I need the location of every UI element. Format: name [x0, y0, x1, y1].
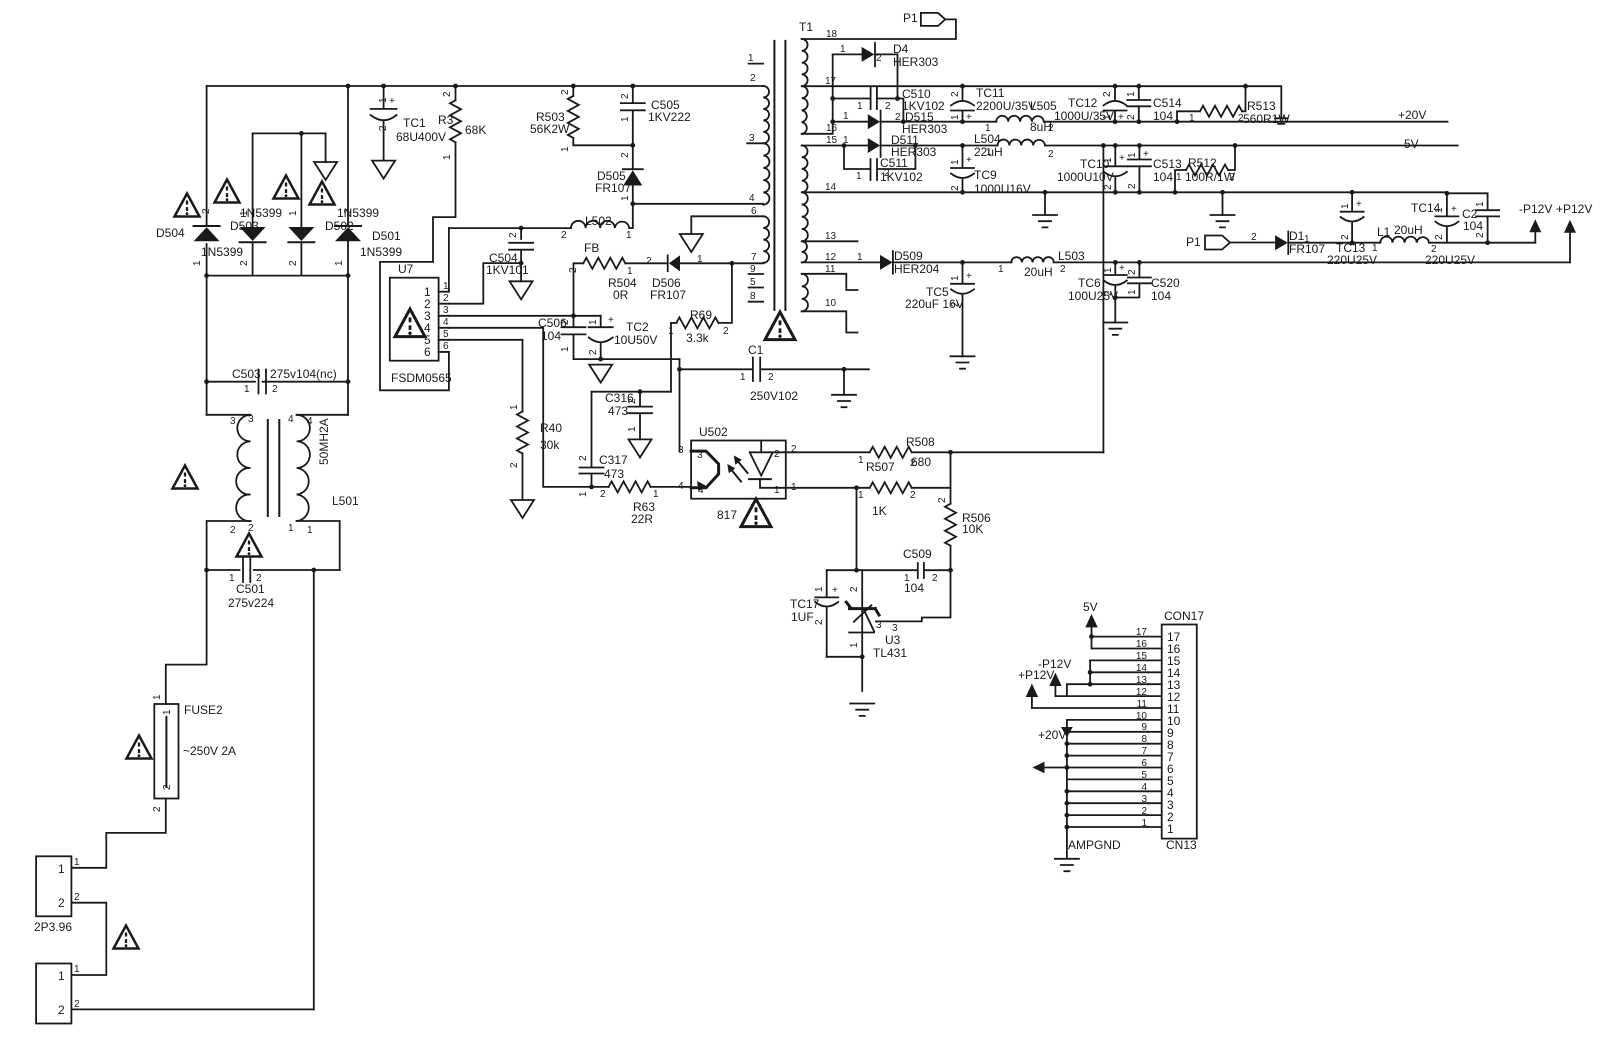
svg-text:1: 1 — [1127, 289, 1138, 295]
capacitor C520 — [1115, 262, 1151, 297]
capacitor C510 — [833, 87, 898, 109]
svg-text:2: 2 — [1048, 123, 1054, 134]
capacitor C317 — [580, 392, 604, 487]
capacitor C511 — [844, 146, 915, 181]
svg-text:HER204: HER204 — [894, 262, 940, 276]
diode D506 — [667, 255, 669, 271]
svg-text:1: 1 — [843, 135, 849, 146]
svg-text:1: 1 — [1372, 243, 1378, 254]
svg-text:5: 5 — [443, 329, 449, 340]
wire L1 to -P12V — [1429, 242, 1535, 244]
svg-text:1: 1 — [162, 709, 173, 715]
op-amp U502 optocoupler 817 — [691, 441, 786, 499]
wire pin4 — [1067, 790, 1148, 792]
wire C501 right down to connector — [313, 570, 315, 1009]
svg-text:1N5399: 1N5399 — [201, 245, 243, 259]
svg-text:+: + — [1451, 204, 1457, 215]
svg-text:12: 12 — [825, 252, 837, 263]
svg-text:1: 1 — [740, 372, 746, 383]
wire pin1 node down — [856, 488, 858, 570]
svg-text:TC17: TC17 — [790, 597, 820, 611]
diode D504 — [194, 225, 220, 227]
svg-text:473: 473 — [604, 467, 624, 481]
transistor U3 TL431 — [861, 570, 863, 691]
svg-text:1: 1 — [74, 857, 80, 868]
capacitor TC6 — [1104, 262, 1127, 275]
wire pin17 — [1092, 636, 1148, 638]
ground open triangle bridge — [314, 162, 337, 180]
svg-text:2: 2 — [1048, 149, 1054, 160]
wire pin12 — [1055, 695, 1148, 697]
svg-text:2: 2 — [932, 573, 938, 584]
net +P12V — [1564, 220, 1576, 233]
svg-text:1: 1 — [998, 264, 1004, 275]
svg-text:2: 2 — [791, 444, 797, 455]
svg-text:TL431: TL431 — [873, 646, 907, 660]
resistor R512 — [1175, 170, 1186, 192]
capacitor TC10 — [1104, 146, 1127, 167]
svg-text:2: 2 — [774, 449, 780, 460]
wire left rail upper — [206, 86, 208, 225]
svg-text:9: 9 — [750, 264, 756, 275]
svg-text:+20V: +20V — [1398, 108, 1426, 122]
wire L502 row — [449, 227, 571, 229]
svg-text:2: 2 — [1127, 183, 1138, 189]
wire fuse to connector CN1 pin1 — [71, 799, 165, 868]
connector CON17/CN13 body — [1162, 625, 1197, 839]
capacitor C504 — [509, 228, 533, 281]
svg-text:1: 1 — [1176, 172, 1182, 183]
wire pin15 — [1090, 659, 1148, 661]
svg-text:2: 2 — [620, 152, 631, 158]
svg-text:D501: D501 — [372, 229, 401, 243]
svg-text:4: 4 — [307, 416, 313, 427]
inductor L504 — [998, 140, 1046, 146]
svg-text:1KV101: 1KV101 — [486, 263, 529, 277]
svg-text:2: 2 — [58, 896, 65, 910]
svg-text:C520: C520 — [1151, 276, 1180, 290]
diode D4 — [833, 53, 862, 55]
svg-text:2: 2 — [620, 93, 631, 99]
svg-text:2: 2 — [885, 101, 891, 112]
svg-text:D504: D504 — [156, 226, 185, 240]
U502 LED — [750, 441, 786, 476]
diode D505 — [623, 145, 643, 169]
core L501 — [268, 420, 280, 516]
svg-text:FSDM0565: FSDM0565 — [391, 371, 452, 385]
wire U502 pin1 row / resistor R507 — [786, 487, 870, 489]
wire U3 ref to R506 node — [876, 570, 951, 621]
svg-text:2: 2 — [849, 586, 860, 592]
svg-text:220U25V: 220U25V — [1327, 253, 1377, 267]
wire U7 pin1 up to L502 row — [448, 228, 450, 292]
svg-text:68K: 68K — [465, 123, 486, 137]
T1 pins 9 5 8 stubs — [749, 274, 763, 302]
wire pin5 — [1067, 768, 1148, 858]
svg-text:1: 1 — [1103, 267, 1114, 273]
wire pin7 — [1067, 755, 1148, 757]
svg-text:1: 1 — [578, 491, 589, 497]
warning triangle connectors — [114, 926, 139, 949]
svg-text:3: 3 — [443, 305, 449, 316]
diode D515 — [833, 121, 868, 123]
svg-text:C501: C501 — [236, 582, 265, 596]
svg-text:+: + — [1119, 153, 1125, 164]
svg-text:2: 2 — [588, 349, 599, 355]
T1 secondary winding 15-14-13-12 — [802, 146, 808, 263]
svg-text:R3: R3 — [438, 113, 454, 127]
svg-text:10U50V: 10U50V — [614, 333, 657, 347]
svg-text:2: 2 — [1126, 114, 1137, 120]
wire node to T1 pin7 — [732, 262, 763, 264]
svg-text:1: 1 — [857, 101, 863, 112]
ground open triangle C316 — [629, 439, 652, 457]
svg-text:R40: R40 — [540, 421, 562, 435]
svg-text:C514: C514 — [1153, 96, 1182, 110]
svg-text:1: 1 — [627, 426, 638, 432]
svg-text:104: 104 — [1153, 170, 1173, 184]
core T1 — [774, 41, 785, 310]
capacitor C1 — [680, 358, 869, 382]
svg-text:6: 6 — [751, 206, 757, 217]
svg-text:5: 5 — [750, 277, 756, 288]
svg-text:1: 1 — [620, 116, 631, 122]
svg-text:3: 3 — [678, 445, 684, 456]
wire C506/TC2 ground row — [574, 358, 680, 360]
capacitor C505 — [621, 86, 645, 145]
warning triangle bridge 4 — [310, 182, 335, 205]
svg-text:1: 1 — [58, 969, 65, 983]
svg-text:P1: P1 — [1186, 235, 1201, 249]
svg-text:~250V 2A: ~250V 2A — [183, 744, 236, 758]
svg-text:C509: C509 — [903, 547, 932, 561]
svg-text:R69: R69 — [690, 308, 712, 322]
svg-text:2: 2 — [1060, 264, 1066, 275]
svg-text:20uH: 20uH — [1394, 223, 1423, 237]
svg-text:FUSE2: FUSE2 — [184, 703, 223, 717]
svg-text:1: 1 — [748, 53, 754, 64]
pin stubs U7 — [439, 292, 449, 352]
svg-text:2: 2 — [239, 260, 250, 266]
capacitor TC17 — [815, 570, 838, 597]
capacitor C503 — [207, 370, 348, 394]
wire U7 pin5 to R40 — [449, 340, 523, 412]
svg-text:1: 1 — [950, 114, 961, 120]
svg-text:2: 2 — [768, 372, 774, 383]
svg-text:CN13: CN13 — [1166, 838, 1197, 852]
svg-text:22R: 22R — [631, 512, 653, 526]
resistor R504 — [574, 263, 584, 316]
svg-text:2: 2 — [162, 784, 173, 790]
svg-text:+: + — [1356, 199, 1362, 210]
wire stub to input arrow — [325, 133, 327, 162]
wire feedback vertical to 5V rail — [1102, 146, 1104, 453]
svg-text:TC2: TC2 — [626, 320, 649, 334]
svg-text:L503: L503 — [1058, 249, 1085, 263]
svg-text:220U25V: 220U25V — [1425, 253, 1475, 267]
svg-text:2: 2 — [814, 619, 825, 625]
svg-text:2: 2 — [509, 462, 520, 468]
svg-text:D1: D1 — [1289, 229, 1305, 243]
svg-text:1: 1 — [626, 230, 632, 241]
wire down to U502 pin3 — [679, 359, 681, 451]
wire pin14 — [1090, 660, 1148, 684]
U502 phototransistor — [691, 451, 719, 488]
svg-text:473: 473 — [608, 404, 628, 418]
T1 primary winding 2-3-4 — [763, 86, 769, 205]
wire top bus — [207, 85, 764, 87]
svg-text:1: 1 — [152, 694, 163, 700]
svg-text:56K2W: 56K2W — [530, 122, 570, 136]
capacitor C2 — [1447, 193, 1499, 242]
svg-text:2: 2 — [272, 384, 278, 395]
fuse FUSE2 — [154, 704, 178, 799]
wire T1 pin18 to P1 — [802, 19, 956, 39]
svg-text:2: 2 — [74, 999, 80, 1010]
svg-text:2200U/35V: 2200U/35V — [976, 99, 1036, 113]
svg-text:3: 3 — [230, 416, 236, 427]
svg-text:2: 2 — [910, 490, 916, 501]
capacitor C316 — [628, 392, 652, 440]
svg-text:1: 1 — [560, 146, 571, 152]
svg-text:2: 2 — [1340, 234, 1351, 240]
svg-text:CON17: CON17 — [1164, 609, 1204, 623]
wire T1 pin10 stub — [802, 311, 858, 332]
svg-text:2: 2 — [378, 125, 389, 131]
wire 5V row to TC9/L504 — [915, 145, 997, 147]
svg-text:275v224: 275v224 — [228, 596, 274, 610]
svg-text:2: 2 — [201, 208, 212, 214]
capacitor TC14 — [1435, 192, 1458, 216]
svg-text:100R/1W: 100R/1W — [1185, 170, 1236, 184]
warning triangle above C501 — [237, 534, 262, 557]
svg-text:13: 13 — [825, 231, 837, 242]
svg-text:1: 1 — [588, 319, 599, 325]
wire R3 to U7 outer — [433, 142, 456, 262]
svg-text:2: 2 — [578, 455, 589, 461]
svg-text:+: + — [608, 315, 614, 326]
svg-text:10K: 10K — [962, 522, 983, 536]
wire +20V feed verticals — [1066, 720, 1068, 768]
IC U7 FSDM0565 — [390, 278, 439, 361]
svg-text:1: 1 — [307, 525, 313, 536]
svg-text:3: 3 — [248, 414, 254, 425]
svg-text:L1: L1 — [1377, 225, 1391, 239]
resistor R503 — [572, 86, 574, 96]
svg-text:1: 1 — [653, 489, 659, 500]
svg-text:1: 1 — [1126, 91, 1137, 97]
svg-text:4: 4 — [443, 317, 449, 328]
wire R69 pin1 down — [670, 323, 672, 392]
svg-text:15: 15 — [826, 135, 838, 146]
wire pin9 — [1067, 731, 1148, 733]
svg-text:68U400V: 68U400V — [396, 130, 446, 144]
svg-text:TC9: TC9 — [974, 168, 997, 182]
wire L503 to +P12V — [1054, 261, 1570, 263]
svg-text:+: + — [1119, 263, 1125, 274]
ground open triangle T1 pin6 — [691, 216, 763, 234]
svg-text:2: 2 — [723, 326, 729, 337]
wire D505 node to T1 pin4 — [633, 203, 764, 205]
wire rails to C503 — [207, 276, 348, 415]
svg-text:2: 2 — [508, 232, 519, 238]
svg-text:1: 1 — [1189, 113, 1195, 124]
svg-text:-P12V: -P12V — [1519, 202, 1552, 216]
svg-text:30k: 30k — [540, 438, 560, 452]
wire C1 to earth — [843, 369, 845, 395]
svg-text:560R1W: 560R1W — [1243, 112, 1290, 126]
diode D503 — [252, 133, 254, 226]
svg-text:+: + — [1118, 112, 1124, 123]
inductor L1 — [1352, 242, 1380, 244]
svg-text:1: 1 — [697, 254, 703, 265]
chassis mark after R513 — [1275, 118, 1288, 124]
svg-text:P1: P1 — [903, 11, 918, 25]
capacitor C513 — [1128, 146, 1151, 193]
svg-text:AMPGND: AMPGND — [1068, 838, 1121, 852]
svg-text:2: 2 — [1434, 234, 1445, 240]
svg-text:104: 104 — [1153, 109, 1173, 123]
svg-text:1: 1 — [192, 260, 203, 266]
net -P12V — [1529, 219, 1541, 232]
capacitor C501 — [207, 558, 340, 582]
wire TC2 node top (to pin3 row) — [574, 315, 601, 317]
svg-text:2: 2 — [750, 73, 756, 84]
svg-text:1K: 1K — [872, 504, 887, 518]
svg-text:R512: R512 — [1188, 156, 1217, 170]
svg-text:FR107: FR107 — [650, 288, 686, 302]
node C1 gnd branch — [842, 367, 847, 372]
warning triangle bridge 1 — [175, 194, 200, 217]
resistor R69 — [676, 317, 718, 328]
svg-text:1000U16V: 1000U16V — [974, 182, 1031, 196]
svg-text:R507: R507 — [866, 460, 895, 474]
diode D511 — [868, 138, 880, 153]
svg-text:TC12: TC12 — [1068, 96, 1098, 110]
svg-text:TC14: TC14 — [1411, 201, 1441, 215]
earth C1 — [832, 395, 856, 407]
svg-text:6: 6 — [443, 341, 449, 352]
capacitor TC11 — [962, 86, 964, 99]
svg-text:1: 1 — [950, 275, 961, 281]
ground open triangle C504 — [510, 281, 533, 299]
svg-text:250V102: 250V102 — [750, 389, 798, 403]
svg-text:275v104(nc): 275v104(nc) — [270, 367, 337, 381]
earth AMPGND — [1055, 859, 1079, 871]
inductor L502 — [571, 221, 629, 228]
svg-text:4: 4 — [698, 485, 704, 496]
wire R69 bottom row to C317 — [592, 391, 672, 393]
svg-text:D503: D503 — [230, 219, 259, 233]
svg-text:1: 1 — [239, 210, 250, 216]
wire pin6 with left arrow — [1045, 767, 1148, 769]
svg-text:1: 1 — [442, 154, 453, 160]
svg-text:8: 8 — [750, 291, 756, 302]
svg-text:0R: 0R — [613, 288, 629, 302]
svg-text:2P3.96: 2P3.96 — [34, 920, 72, 934]
warning triangle bridge 3 — [274, 176, 299, 199]
wire CN2 pin2 return — [71, 1008, 313, 1010]
wire CN1 pin2 to CN2 pin1 — [71, 903, 106, 975]
svg-text:L504: L504 — [974, 132, 1001, 146]
svg-text:FB: FB — [584, 241, 599, 255]
svg-text:R508: R508 — [906, 435, 935, 449]
svg-text:2: 2 — [343, 208, 354, 214]
svg-text:TC6: TC6 — [1078, 276, 1101, 290]
capacitor TC1 — [371, 86, 397, 109]
svg-text:50MH2A: 50MH2A — [317, 418, 331, 465]
svg-text:2: 2 — [568, 267, 579, 273]
svg-text:1: 1 — [950, 159, 961, 165]
capacitor TC2 — [589, 316, 613, 327]
svg-text:2: 2 — [937, 497, 948, 503]
T1 secondary winding 18-17-16 — [802, 39, 808, 134]
svg-text:1: 1 — [244, 384, 250, 395]
capacitor C514 — [1127, 86, 1150, 122]
svg-text:1: 1 — [849, 642, 860, 648]
svg-text:100U25V: 100U25V — [1068, 289, 1118, 303]
wire T1 pin12 row — [802, 261, 880, 263]
inductor L501 left winding — [236, 415, 250, 521]
svg-text:1: 1 — [378, 97, 389, 103]
wire T1 pin17 bus — [802, 86, 1282, 117]
svg-text:3: 3 — [697, 450, 703, 461]
svg-text:10: 10 — [825, 298, 837, 309]
svg-text:C511: C511 — [880, 156, 908, 170]
svg-text:C513: C513 — [1153, 157, 1182, 171]
ground open triangle TC2 — [589, 365, 612, 383]
svg-text:U3: U3 — [885, 633, 901, 647]
inductor L501 right winding — [297, 415, 310, 521]
node mid bus junction — [299, 131, 304, 136]
connector P1 right — [1205, 236, 1230, 250]
svg-text:2: 2 — [646, 256, 652, 267]
warning triangle bridge 2 — [215, 180, 240, 203]
resistor R3 — [455, 86, 457, 100]
connector 2P3.96 lower — [36, 964, 71, 1024]
capacitor TC5 — [951, 262, 974, 283]
U502 light arrows — [739, 462, 748, 473]
svg-text:+: + — [1143, 149, 1149, 160]
U7 module outline — [380, 262, 449, 390]
wire pin16 — [1092, 637, 1148, 649]
svg-text:2: 2 — [561, 230, 567, 241]
resistor R63 — [592, 486, 609, 488]
diode D509 — [880, 255, 893, 270]
svg-text:TC10: TC10 — [1080, 157, 1110, 171]
T1 primary winding 6-7 — [763, 216, 769, 262]
warning triangle fuse — [127, 736, 152, 759]
svg-text:+P12V: +P12V — [1556, 202, 1592, 216]
svg-text:C503: C503 — [232, 367, 261, 381]
T1 pin3 stub — [747, 142, 763, 144]
svg-text:L501: L501 — [332, 494, 359, 508]
svg-text:1: 1 — [288, 523, 294, 534]
wire T1 pin11 stub — [802, 274, 858, 290]
svg-text:14: 14 — [825, 182, 837, 193]
capacitor C509 — [827, 563, 951, 578]
diode D501 — [347, 86, 349, 226]
capacitor C506 — [562, 316, 586, 359]
wire U7 pin4 to R63 row — [449, 328, 592, 487]
svg-text:22uH: 22uH — [974, 145, 1003, 159]
svg-text:1: 1 — [856, 171, 862, 182]
svg-text:1: 1 — [509, 404, 520, 410]
node D506 / T1 pin7 — [730, 261, 735, 266]
wire bridge bottom bus — [207, 275, 348, 277]
svg-text:1: 1 — [858, 490, 864, 501]
svg-text:TC1: TC1 — [403, 116, 426, 130]
